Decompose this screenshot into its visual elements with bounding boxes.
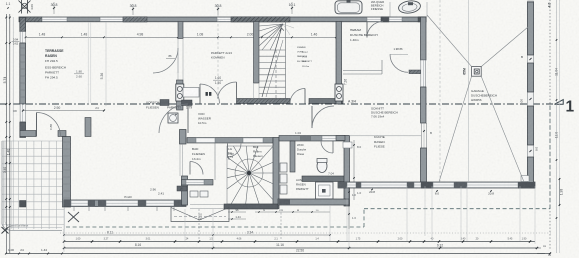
- kitchen small rect: [343, 142, 352, 148]
- corridor door arc right: [290, 89, 305, 104]
- right thin margin lines: [556, 0, 558, 253]
- radiator boxes: [280, 163, 287, 172]
- roof overhang dashed east vertical: [549, 105, 551, 209]
- bath divider thin line: [389, 2, 391, 17]
- divider wall lower segment with chimney: [177, 80, 184, 110]
- garage column: [472, 67, 482, 77]
- door swing arc west entrance: [37, 113, 61, 137]
- section arrow: [555, 100, 564, 105]
- east wall window gap: [421, 60, 426, 87]
- washbasin square hall: [168, 113, 178, 123]
- wc south interior wall: [302, 176, 349, 182]
- extension line h: [439, 0, 441, 182]
- staircase treads: [259, 22, 286, 100]
- divider wall upper segment: [178, 22, 183, 39]
- top dimension text 2: [132, 8, 134, 10]
- top wall window 4: [367, 17, 381, 21]
- south wall west wing: [64, 200, 186, 207]
- bathtub: [335, 1, 362, 14]
- corner cross marker: [68, 212, 79, 222]
- section line A-A: [0, 103, 560, 105]
- garage wall gap ticks: [529, 58, 531, 60]
- dotted line above rows: [60, 232, 552, 234]
- south wall window 1: [71, 200, 88, 206]
- north arrow cross marker: [19, 0, 31, 14]
- extension line k: [431, 186, 433, 241]
- hall east door arc: [390, 53, 408, 55]
- shower tray: [316, 182, 334, 199]
- door handle blobs: [206, 92, 208, 96]
- east south window 3: [414, 182, 421, 187]
- bottom dimension row 3: [6, 253, 550, 255]
- bad south fixtures: [190, 191, 198, 197]
- bad door arc: [189, 162, 191, 175]
- south wall dark block a: [88, 200, 95, 207]
- east wall hall mid: [421, 87, 427, 123]
- bad north wall: [187, 138, 273, 144]
- extension line n: [519, 186, 521, 241]
- corridor wall bath front: [309, 99, 343, 104]
- corridor double door right leaf: [236, 82, 238, 99]
- bath door arc lower: [311, 106, 313, 128]
- right margin tick marks: [556, 39, 558, 41]
- west wall window lower: [20, 104, 25, 122]
- extension line f: [63, 207, 65, 252]
- top dimension text 3: [217, 8, 219, 10]
- bottom left small dims: [5, 253, 7, 255]
- top wall dark segment c (hatched): [231, 17, 290, 22]
- corner notch white: [521, 176, 529, 182]
- garage right wall corner: [518, 182, 535, 189]
- extension line i: [346, 186, 348, 241]
- east south window 1: [347, 182, 356, 187]
- porch threshold lines: [190, 204, 224, 206]
- entrance steps: [171, 207, 229, 222]
- extension line l: [460, 186, 462, 241]
- corridor wall below counter: [182, 100, 193, 106]
- south wall window 3: [146, 200, 174, 206]
- west exterior wall upper: [20, 17, 26, 31]
- stair left wall lower opening: [253, 83, 255, 99]
- south wall dark block b: [98, 200, 106, 207]
- top wall corner block: [418, 17, 426, 22]
- south wall dark block c: [138, 200, 146, 207]
- wc door arc: [332, 141, 334, 153]
- bad interior line: [214, 143, 216, 181]
- stair fan treads: [259, 24, 294, 50]
- extension line p: [184, 209, 186, 241]
- extension line e: [534, 186, 536, 244]
- extension line r: [348, 229, 350, 248]
- kitchen north wall stub: [336, 136, 345, 141]
- corridor double door left leaf: [199, 84, 201, 104]
- bad west wall upper: [180, 130, 187, 145]
- terrace column: [20, 201, 27, 208]
- extension line g: [217, 15, 219, 98]
- kitchen counter rect: [183, 88, 199, 98]
- bad west wall lower: [182, 176, 188, 205]
- winder stair walls: [273, 138, 279, 209]
- stair centerline dashed: [275, 50, 277, 98]
- wall stub hatched: [409, 70, 421, 74]
- extension line m: [466, 186, 468, 241]
- kitchen north thin line: [349, 135, 421, 137]
- winder stair door arc: [227, 144, 229, 158]
- wc south wall: [278, 199, 349, 205]
- living window mullion lines: [87, 22, 89, 103]
- door leaf west entrance: [36, 113, 38, 137]
- bad west wall thin lines: [179, 144, 181, 176]
- bath west wall: [336, 22, 342, 105]
- east south dark a: [338, 182, 347, 188]
- garage center thin line: [468, 0, 470, 182]
- row1 left segment: [63, 229, 65, 235]
- east south dark c: [407, 182, 414, 188]
- west wall window upper: [20, 32, 25, 44]
- extension line b: [198, 209, 200, 240]
- terrace corner X marker: [2, 227, 9, 234]
- stair left wall: [254, 22, 260, 84]
- bad south wall: [182, 180, 214, 186]
- terrace tile grid: [2, 141, 64, 229]
- bottom dimension row 2: [64, 247, 537, 249]
- left margin dimension lines: [5, 14, 7, 253]
- east south window 4: [433, 182, 454, 187]
- east south dark d: [454, 182, 467, 188]
- west wall dark end: [20, 122, 26, 138]
- kitchen east wall window: [420, 123, 422, 148]
- right rotated dim c: [559, 178, 561, 206]
- top wall window 2: [100, 17, 123, 21]
- east south window 5: [467, 182, 518, 187]
- top wall window 1: [42, 17, 67, 21]
- overhang dim line: [348, 187, 350, 229]
- extension line o: [212, 209, 214, 248]
- roof overhang dashed corner vertical: [363, 209, 365, 227]
- extension line c: [280, 209, 282, 240]
- corridor dim line: [23, 110, 104, 112]
- kitchen east wall: [421, 148, 427, 182]
- bottom dimension row 1: [64, 241, 535, 243]
- roof overhang dashed east horizontal: [364, 208, 550, 210]
- top dimension text 4: [291, 7, 293, 9]
- top wall window 5: [389, 17, 402, 21]
- chimney flues left: [176, 84, 184, 101]
- washbasin oval: [398, 0, 421, 14]
- south wall window 2: [106, 200, 138, 206]
- extension line d: [424, 186, 426, 236]
- top exterior wall: [19, 17, 426, 22]
- west exterior wall mid: [20, 43, 26, 104]
- extension line a: [105, 22, 107, 106]
- hall dim line vertical: [353, 140, 355, 200]
- winder stair fan: [227, 146, 273, 204]
- south wall dark pier: [174, 200, 186, 207]
- chimney flues right: [335, 84, 343, 101]
- door pier block: [85, 118, 91, 137]
- wc north wall: [279, 136, 345, 142]
- top dimension text 1: [53, 7, 55, 9]
- garage right wall: [528, 1, 534, 188]
- scan noise overlay: [0, 0, 1, 1]
- stair south dark base: [224, 204, 278, 209]
- south small dim cluster b: [255, 211, 330, 213]
- divider wall opening lines: [177, 39, 179, 81]
- top wall dark segment a: [20, 17, 42, 22]
- extension line j: [406, 186, 408, 241]
- wc toilet: [317, 160, 327, 173]
- hall door arc to bad: [187, 104, 189, 133]
- extension line q: [329, 206, 331, 241]
- terrace border: [2, 141, 62, 231]
- stair walk line diagonal: [262, 28, 284, 97]
- garage left boundary line: [426, 2, 428, 17]
- top wall dark segment d: [381, 17, 389, 22]
- hall door arc: [366, 22, 368, 38]
- top wall window 3: [217, 17, 231, 21]
- south wall east wing: [338, 182, 535, 188]
- south stub wall: [177, 186, 187, 191]
- top wall dark segment b: [123, 17, 147, 22]
- east south dark e: [518, 182, 535, 189]
- jog wall horizontal with door opening: [20, 131, 36, 137]
- east south corner block: [421, 182, 433, 189]
- south wall dark corner: [64, 200, 71, 207]
- south small dim cluster a: [228, 211, 246, 213]
- east wall hall upper: [421, 17, 427, 60]
- south wall window ticks: [73, 207, 75, 211]
- east south dark b: [356, 182, 361, 188]
- corridor wall: [237, 99, 291, 104]
- divider door arc: [153, 48, 178, 73]
- corridor left block: [160, 100, 169, 106]
- roof overhang dashed south long: [66, 226, 364, 228]
- lower west exterior wall: [63, 137, 71, 208]
- interior dimension line upper: [26, 36, 336, 38]
- bath north counter: [343, 70, 382, 72]
- wc inner wall: [290, 141, 295, 172]
- wc east wall: [344, 136, 350, 207]
- garage diagonal cross: [427, 15, 472, 67]
- east south window 2: [361, 182, 407, 187]
- right dotted margin line: [549, 0, 551, 249]
- bottom right arrows: [535, 248, 545, 254]
